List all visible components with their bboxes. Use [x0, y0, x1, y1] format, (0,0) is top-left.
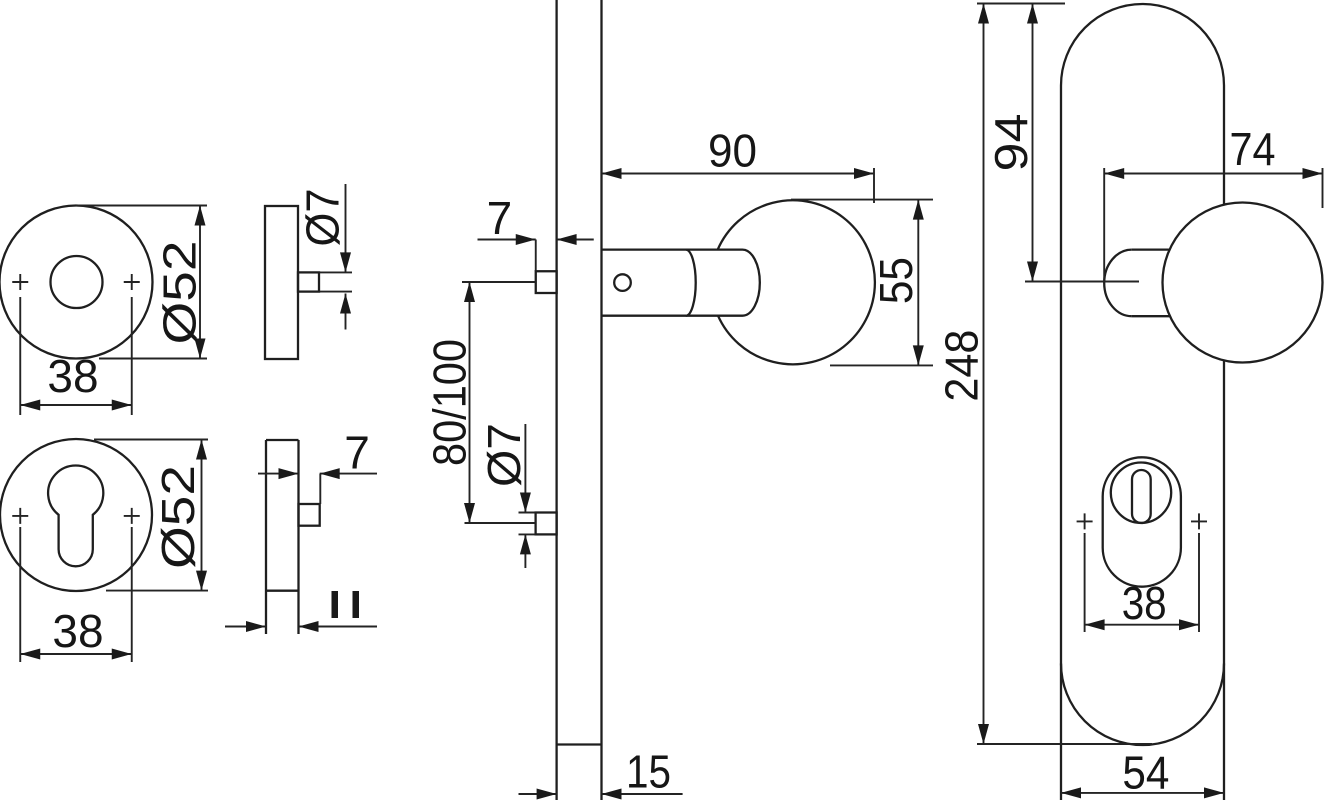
dimension line 55 [917, 200, 919, 366]
arrow 74 left [1104, 168, 1124, 179]
extension line bottom Ø52 B [106, 590, 208, 592]
svg-text:54: 54 [1122, 747, 1169, 799]
arrow 94 top [1027, 4, 1038, 24]
dimension line 248 [983, 4, 985, 745]
door panel left edge [555, 0, 557, 800]
extension line top plate [977, 3, 1065, 5]
svg-text:38: 38 [47, 350, 98, 402]
dimension line Ø52 B [201, 440, 203, 591]
arrow Ø7 lower up [520, 534, 531, 554]
svg-text:74: 74 [1230, 123, 1276, 175]
backplate left edge [1060, 86, 1062, 800]
arrow Ø7 lower down [520, 493, 531, 513]
extension line 90 right [873, 168, 875, 203]
arrow 54 right [1204, 787, 1224, 798]
dimension line 11 D right [299, 626, 378, 628]
arrow 7 right [557, 234, 577, 245]
extension line ball bottom [830, 364, 933, 366]
extension line right screw B [131, 527, 133, 662]
plate screw mark left [1077, 513, 1093, 529]
svg-text:80/100: 80/100 [424, 339, 476, 466]
door panel right edge [600, 0, 602, 800]
cylinder escutcheon oval [1103, 457, 1181, 586]
extension line 74 left [1103, 168, 1105, 282]
rosette B outer circle [0, 439, 152, 591]
arrow 38 F left [1085, 619, 1105, 630]
extension line 80/100 top [462, 281, 536, 283]
svg-text:7: 7 [344, 427, 370, 479]
dimension line 15 right [602, 793, 683, 795]
rosette B euro profile keyhole [48, 466, 103, 567]
side view C screw boss [298, 272, 319, 291]
extension line 80/100 bottom [465, 522, 536, 524]
arrow 38 B right [112, 649, 132, 660]
arrow 55 top [913, 200, 924, 220]
side view D screw boss [299, 504, 320, 526]
extension line top Ø52 B [94, 439, 208, 441]
extension line ball top [791, 199, 933, 201]
leader line Ø7 lower upper [524, 424, 526, 513]
knob F neck top line [1132, 248, 1170, 250]
dimension line 7 D left [258, 473, 299, 475]
svg-text:38: 38 [1122, 577, 1167, 629]
extension line bottom Ø52 A [99, 358, 207, 360]
arrow 38 A left [20, 400, 40, 411]
arrow Ø52 B top [196, 440, 207, 460]
arrow 7 D left [279, 468, 299, 479]
dimension line 11 D left [225, 626, 266, 628]
side view D rosette body [266, 440, 299, 634]
dimension line 38 B [20, 653, 132, 655]
dimension line 94 [1032, 4, 1034, 282]
dimension line 38 F [1085, 624, 1199, 626]
arrow 15 left [537, 789, 557, 800]
neck joint arc [686, 250, 696, 316]
arrow 38 F right [1179, 619, 1199, 630]
lower screw boss on panel [536, 513, 557, 535]
knob ball arc [718, 200, 875, 364]
extension line plate screw left [1084, 533, 1086, 632]
rosette A inner hole [51, 256, 103, 308]
arrow Ø52 A top [195, 206, 206, 226]
label 11 D stroke 2 [353, 591, 360, 618]
neck end cap arc [743, 250, 760, 316]
tick line C boss bottom [320, 291, 353, 293]
arrow 80/100 top [464, 282, 475, 302]
arrow 90 left [602, 168, 622, 179]
tick line C boss top [320, 271, 353, 273]
rosette A outer circle [0, 206, 153, 359]
svg-text:7: 7 [487, 192, 513, 244]
dimension line 80/100 [469, 282, 471, 523]
svg-text:Ø52: Ø52 [152, 465, 204, 569]
svg-text:94: 94 [985, 114, 1037, 172]
arrow 74 right [1303, 168, 1323, 179]
arrow 38 A right [112, 400, 132, 411]
arrow 11 D left [246, 621, 266, 632]
cylinder keyway slot [1132, 470, 1151, 523]
dimension line 90 [602, 173, 875, 175]
arrow Ø52 B bottom [196, 571, 207, 591]
upper screw boss on panel [536, 271, 557, 293]
leader line Ø7 lower lower [524, 534, 526, 568]
dimension line 7 right [557, 239, 594, 241]
tick line lower boss top [519, 512, 536, 514]
arrow 38 B left [20, 649, 40, 660]
extension line plate screw right [1198, 533, 1200, 632]
arrow Ø52 A bottom [195, 339, 206, 359]
cylinder ring [1111, 463, 1171, 523]
extension line bottom plate [977, 743, 1152, 745]
svg-text:15: 15 [626, 746, 671, 798]
svg-text:90: 90 [708, 125, 757, 177]
rosette A screw mark left [12, 274, 28, 290]
knob F neck cap arc [1104, 250, 1132, 317]
extension line 7 D [319, 474, 321, 504]
tick line lower boss bottom [519, 533, 536, 535]
svg-text:Ø7: Ø7 [478, 423, 530, 487]
arrow 54 left [1061, 787, 1081, 798]
dimension line 74 [1104, 173, 1322, 175]
extension line top Ø52 A [76, 205, 207, 207]
dimension line 15 left [519, 793, 557, 795]
dimension line 38 A [20, 404, 132, 406]
dimension line Ø52 A [199, 206, 201, 359]
backplate right edge upper [1223, 86, 1225, 205]
extension line 7 boss [535, 240, 537, 272]
extension line 94 knob axis [1025, 281, 1139, 283]
svg-text:55: 55 [870, 257, 922, 304]
knob F neck bottom line [1132, 315, 1170, 317]
extension line left screw A [19, 297, 21, 415]
arrow 55 bottom [913, 345, 924, 365]
svg-text:Ø7: Ø7 [297, 189, 349, 247]
rosette A screw mark right [124, 274, 140, 290]
extension line right screw A [131, 297, 133, 415]
leader line Ø7 C lower [345, 294, 347, 330]
leader line Ø7 C upper [345, 184, 347, 272]
arrow 11 D right [299, 621, 319, 632]
arrow Ø7 C up [340, 294, 351, 314]
arrow 90 right [854, 168, 874, 179]
extension line 74 right [1322, 168, 1324, 208]
svg-text:38: 38 [52, 605, 103, 657]
arrow Ø7 C down [340, 252, 351, 272]
arrow 80/100 bottom [464, 503, 475, 523]
arrow 15 right [602, 789, 622, 800]
arrow 7 D right [320, 468, 340, 479]
spindle screw hole [614, 274, 631, 291]
rosette B screw mark right [124, 508, 140, 524]
extension line left screw B [19, 527, 21, 662]
backplate right edge lower [1223, 360, 1225, 800]
dimension line 7 D right [320, 473, 377, 475]
knob neck bottom line [602, 315, 743, 317]
svg-text:Ø52: Ø52 [153, 241, 205, 345]
knob neck top line [602, 248, 743, 250]
dimension line 7 left [478, 239, 536, 241]
arrow 94 bottom [1027, 262, 1038, 282]
side view C rosette body [265, 206, 298, 359]
label 11 D stroke 1 [332, 591, 339, 618]
dimension line 54 [1061, 792, 1224, 794]
arrow 248 bottom [978, 724, 989, 744]
arrow 7 left [516, 234, 536, 245]
arrow 248 top [978, 4, 989, 24]
backplate bottom cap [1061, 664, 1224, 745]
rosette B screw mark left [12, 508, 28, 524]
backplate top cap [1061, 4, 1224, 86]
knob F circle [1163, 203, 1323, 363]
plate screw mark right [1191, 513, 1207, 529]
door panel bottom edge [557, 743, 602, 745]
svg-text:248: 248 [936, 330, 988, 402]
